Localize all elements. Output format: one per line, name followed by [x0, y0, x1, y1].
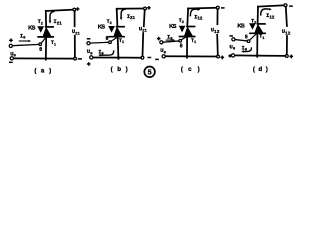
svg-text:θ: θ	[180, 44, 183, 50]
gate lead diagonal (c)	[181, 37, 185, 40]
node gate (a)	[39, 43, 42, 46]
caption (c)	[181, 66, 200, 73]
caption (d)	[253, 66, 268, 73]
gate lead diagonal (b)	[111, 38, 116, 41]
wire main vertical T1 (d)	[256, 34, 258, 57]
circuit (b): triac with positive U21, negative gate	[87, 6, 151, 66]
svg-text:b: b	[117, 66, 121, 73]
terminal UG+ (c) top left	[160, 41, 163, 44]
triac KS (c)	[186, 26, 195, 28]
svg-text:): )	[49, 67, 51, 74]
svg-text:KS: KS	[237, 23, 245, 29]
svg-text:): )	[266, 66, 268, 73]
wire bottom (a)	[13, 57, 73, 59]
triac KS (b)	[116, 26, 125, 28]
wire top from T2 corner to - terminal (d)	[258, 5, 284, 6]
circuit (d): triac with negative U12, negative gate	[228, 4, 293, 59]
label + polarity UG (d)	[228, 54, 231, 57]
figure number 5 in circle	[144, 67, 155, 78]
wire right vertical lower (c)	[216, 35, 219, 55]
node + terminal (c) bottom right	[217, 55, 220, 58]
triac KS (d)	[257, 23, 266, 25]
wire main vertical T2 (c)	[186, 9, 189, 27]
label + polarity (b) top right	[147, 6, 151, 10]
svg-text:): )	[126, 66, 128, 73]
svg-text:5: 5	[148, 67, 152, 76]
label + polarity UG (a)	[9, 39, 13, 43]
gate lead diagonal (d)	[250, 34, 257, 40]
node - terminal (a) bottom right	[74, 57, 77, 60]
wire gate from UG- (b)	[90, 41, 109, 44]
wire main vertical T2 (b)	[116, 9, 119, 27]
caption (b)	[111, 66, 128, 73]
wire right vertical lower (a)	[74, 36, 76, 57]
wire main vertical T2 (d)	[257, 7, 259, 24]
svg-text:θ: θ	[39, 47, 42, 53]
wire bottom (c)	[165, 55, 216, 57]
label - polarity (a) bottom right	[78, 58, 82, 60]
label + polarity UG (c)	[157, 37, 161, 41]
wire right vertical lower (b)	[142, 33, 145, 56]
label - polarity UG (b)	[87, 38, 91, 40]
junction T1-bottom wire (b)	[117, 56, 119, 58]
junction T1-bottom wire (d)	[256, 54, 258, 56]
label - polarity UG (a)	[9, 61, 13, 63]
triac KS (a)	[45, 26, 54, 28]
node + terminal (b) top right	[144, 7, 147, 10]
caption (a)	[34, 67, 51, 74]
wire top from T2 corner to - terminal (c)	[188, 7, 217, 10]
wire right vertical upper (a)	[74, 11, 76, 26]
svg-text:d: d	[258, 66, 262, 73]
label - polarity (d) top right	[289, 5, 293, 7]
label - polarity (c) top right	[221, 7, 225, 9]
wire main vertical T1 (c)	[186, 37, 188, 58]
terminal UG- (d) top left	[232, 38, 235, 41]
node - terminal (b) bottom right	[141, 56, 144, 59]
node - terminal (d) top right	[284, 4, 287, 7]
current arrow I12 (d)	[261, 9, 270, 16]
wire gate from UG+ (a)	[12, 44, 39, 45]
wire right vertical upper (c)	[216, 9, 218, 24]
gate current arrow IG (d)	[243, 47, 252, 51]
wire gate from UG+ (c)	[163, 41, 179, 42]
node gate (c)	[179, 40, 182, 43]
wire right vertical upper (d)	[286, 7, 287, 26]
terminal UG+ (a) top left	[9, 44, 12, 47]
wire gate from UG- (d)	[235, 40, 247, 42]
svg-text:c: c	[188, 66, 192, 73]
terminal UG- (c) bottom left	[162, 55, 165, 58]
label + polarity UG (b)	[87, 62, 91, 66]
terminal UG+ (b) bottom left	[90, 56, 93, 59]
circuit (c): triac with negative U12, positive gate	[155, 6, 224, 59]
current arrow I12 (c)	[190, 9, 198, 16]
wire main vertical T1 (b)	[117, 37, 120, 59]
node + terminal (a) top right	[73, 8, 76, 11]
node gate (d)	[247, 40, 250, 43]
current arrow I21 (b)	[121, 9, 126, 18]
label + polarity (d) bottom right	[290, 55, 294, 59]
wire main vertical T1 (a)	[45, 37, 47, 59]
label + polarity (a) top right	[76, 7, 80, 11]
wire bottom (d)	[235, 54, 286, 57]
node + terminal (d) bottom right	[285, 55, 288, 58]
svg-text:θ: θ	[245, 35, 248, 41]
terminal UG- (b) top left	[87, 42, 90, 45]
svg-text:KS: KS	[169, 24, 177, 30]
node gate (b)	[109, 41, 112, 44]
svg-text:KS: KS	[98, 24, 106, 30]
svg-text:θ: θ	[106, 36, 109, 42]
gate current arrow IG (a)	[19, 40, 29, 42]
gate lead diagonal (a)	[41, 39, 45, 44]
wire right vertical upper (b)	[143, 10, 146, 27]
junction T1-bottom wire (a)	[45, 57, 47, 59]
gate current arrow IG (b)	[100, 50, 114, 55]
svg-text:a: a	[41, 67, 45, 74]
svg-text:KS: KS	[28, 26, 36, 32]
terminal UG- (a) bottom left	[10, 57, 13, 60]
circuit (a): triac with positive U21, positive gate	[9, 7, 82, 62]
label - polarity UG (d)	[229, 35, 233, 37]
wire top from T2 corner to + terminal (b)	[117, 8, 144, 10]
label - polarity (b) bottom right	[148, 57, 152, 59]
label + polarity (c) bottom right	[221, 56, 225, 60]
junction T1-bottom wire (c)	[186, 55, 188, 57]
node - terminal (c) top right	[216, 6, 219, 9]
svg-text:): )	[198, 66, 200, 73]
gate current arrow IG (c)	[166, 39, 173, 41]
label - polarity UG (c)	[155, 58, 159, 60]
current arrow I21 (a)	[50, 11, 55, 21]
wire bottom (b)	[93, 57, 141, 59]
terminal UG+ (d) bottom left	[231, 54, 234, 57]
wire right vertical lower (d)	[286, 36, 288, 54]
wire main vertical T2 (a)	[45, 11, 47, 27]
wire top from T2 corner to + terminal (a)	[46, 10, 73, 11]
